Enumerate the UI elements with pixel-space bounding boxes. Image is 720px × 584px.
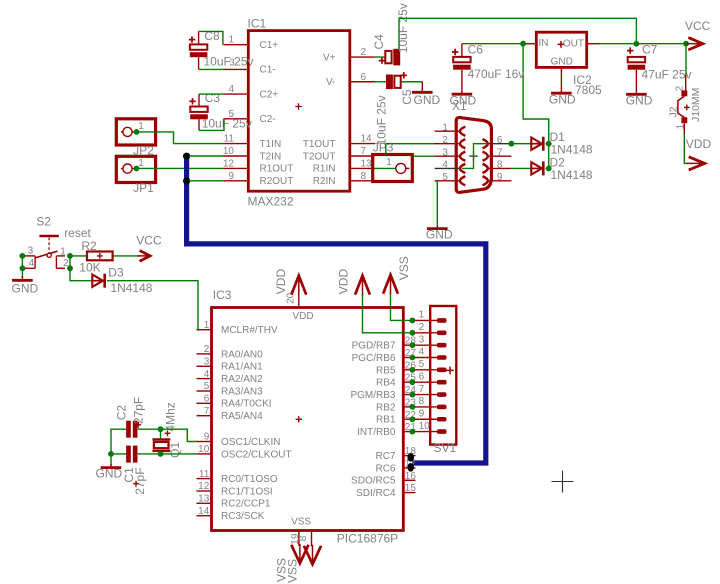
svg-text:2: 2 (442, 135, 448, 146)
svg-text:8: 8 (361, 171, 367, 182)
svg-text:C6: C6 (468, 42, 484, 56)
IC3 pin 28 PGD/RB7 (403, 344, 415, 346)
svg-text:JP3: JP3 (373, 141, 394, 155)
IC3 pin 8 VSS (311, 531, 313, 547)
capacitor C2 27pF (126, 421, 131, 438)
capacitor C6 470uF 16v (453, 57, 470, 62)
wire S2 to D3 (70, 268, 91, 280)
svg-text:GND: GND (626, 94, 653, 108)
svg-text:JP1: JP1 (133, 181, 154, 195)
IC3 pin 16 SDO/RC5 (403, 479, 415, 481)
IC1 pin 9 R2OUT (224, 180, 249, 182)
svg-text:Q1: Q1 (168, 442, 182, 458)
svg-text:7: 7 (419, 384, 425, 395)
svg-text:MCLR#/THV: MCLR#/THV (221, 325, 278, 336)
IC3 pin 12 RC1/T1OSI (197, 490, 212, 492)
svg-text:15: 15 (405, 483, 417, 494)
svg-text:C1-: C1- (260, 65, 276, 76)
svg-text:7: 7 (497, 147, 503, 158)
svg-text:S2: S2 (36, 214, 51, 228)
IC1 pin 5 C2- (224, 118, 249, 120)
wire C1 to OSC2 (138, 453, 197, 455)
jumper J2 10MM (681, 90, 687, 96)
wire C6 to 7805 IN (462, 43, 524, 45)
connector X1 DB9 outline (456, 118, 491, 193)
wire to ground xtal (110, 454, 112, 466)
IC3 pin 10 OSC2/CLKOUT (197, 453, 212, 455)
svg-text:IN: IN (539, 38, 549, 49)
svg-text:VSS: VSS (397, 256, 411, 280)
svg-text:OSC2/CLKOUT: OSC2/CLKOUT (221, 449, 292, 460)
svg-text:5: 5 (204, 381, 210, 392)
wire X1 pin8 to D2 (511, 167, 531, 169)
IC3 pin 6 RA4/T0CKI (197, 402, 212, 404)
capacitor C4 10uF 25v (385, 51, 391, 63)
diode D2 1N4148 (530, 167, 543, 169)
IC3 pin 19 VSS (298, 531, 300, 547)
svg-text:47uF 25v: 47uF 25v (642, 67, 692, 81)
svg-text:D3: D3 (108, 266, 124, 280)
IC1 pin 13 R1IN (350, 167, 375, 169)
svg-text:V-: V- (326, 77, 335, 88)
svg-text:RB5: RB5 (376, 365, 396, 376)
IC3 pin 18 RC7 (403, 455, 415, 457)
junction D2 cathode (546, 166, 552, 172)
wire D3 to MCLR (107, 281, 199, 330)
svg-text:RA2/AN2: RA2/AN2 (221, 374, 263, 385)
svg-text:6: 6 (204, 394, 210, 405)
svg-text:MAX232: MAX232 (248, 194, 294, 208)
wire T1OUT net to X1 pin2 (386, 144, 435, 155)
connector JP2 (116, 119, 155, 145)
junction OUT VCC (683, 41, 689, 47)
svg-text:9: 9 (419, 408, 425, 419)
SV1 pin 1 (437, 318, 447, 323)
wire J2 to VDD (683, 123, 685, 134)
svg-text:8: 8 (497, 160, 503, 171)
svg-text:VDD: VDD (337, 269, 351, 295)
capacitor C1 27pF (126, 446, 131, 463)
svg-text:3: 3 (442, 147, 448, 158)
capacitor C7 47uF 25v (628, 57, 645, 62)
svg-text:SDI/RC4: SDI/RC4 (356, 488, 396, 499)
svg-text:1: 1 (138, 158, 144, 169)
X1 pin 9 (488, 180, 512, 182)
junction S2 pin2 (67, 265, 73, 271)
svg-text:RA0/AN0: RA0/AN0 (221, 349, 263, 360)
ground IC2 (560, 91, 562, 92)
svg-text:R2OUT: R2OUT (260, 176, 294, 187)
svg-text:4: 4 (204, 369, 210, 380)
wire C3 top to IC1 pin4 (199, 93, 224, 95)
svg-text:1: 1 (138, 121, 144, 132)
svg-text:2: 2 (361, 47, 367, 58)
svg-text:1N4148: 1N4148 (551, 142, 593, 156)
svg-text:J10MM: J10MM (690, 88, 702, 122)
svg-text:T2OUT: T2OUT (303, 151, 336, 162)
wire X1 internal jumper pin4 to pin6 (462, 144, 486, 169)
svg-text:OUT: OUT (563, 38, 584, 49)
IC3 pin 15 SDI/RC4 (403, 492, 415, 494)
svg-text:6: 6 (497, 135, 503, 146)
junction S2 pin1 (67, 253, 73, 259)
IC3 pin 17 RC6 (403, 467, 415, 469)
svg-text:10: 10 (419, 421, 431, 432)
SV1 pin 7 (437, 392, 447, 397)
svg-text:PGM/RB3: PGM/RB3 (350, 390, 395, 401)
op-amp IC1 MAX232 body (248, 31, 349, 192)
svg-text:IC3: IC3 (213, 288, 232, 302)
IC3 pin 20 VDD (298, 295, 300, 308)
svg-text:10: 10 (223, 146, 235, 157)
svg-text:C1+: C1+ (260, 40, 279, 51)
IC2 GND pin (560, 67, 562, 91)
svg-text:11: 11 (224, 134, 235, 145)
svg-text:SDO/RC5: SDO/RC5 (351, 476, 396, 487)
svg-text:RA5/AN4: RA5/AN4 (221, 411, 263, 422)
svg-text:14: 14 (361, 134, 373, 145)
svg-text:C3: C3 (205, 91, 221, 105)
svg-text:GND: GND (414, 93, 441, 107)
svg-text:RA3/AN3: RA3/AN3 (221, 386, 263, 397)
bus entry RC6 (407, 463, 414, 472)
IC1 pin 6 V- (350, 81, 375, 83)
SV1 pin 6 (437, 380, 447, 385)
svg-text:R1OUT: R1OUT (260, 164, 294, 175)
wire S2 right pins (69, 256, 71, 268)
IC3 pin 9 OSC1/CLKIN (197, 441, 212, 443)
SV1 pin 9 (437, 417, 447, 422)
svg-text:1: 1 (442, 122, 448, 133)
capacitor C5 10uF 25v (386, 75, 393, 90)
wire to X1 pin3 (412, 155, 435, 157)
wire R2 to VCC (113, 255, 140, 257)
IC3 pin 11 RC0/T1OSO (197, 478, 212, 480)
wire S2 to ground (21, 268, 23, 277)
SV1 pin 10 (437, 429, 447, 434)
ground near C5 (421, 82, 423, 92)
wire JP2 to T1IN (137, 132, 224, 144)
IC1 pin 2 V+ (350, 56, 375, 58)
SV1 pin 4 (437, 355, 447, 360)
svg-text:1N4148: 1N4148 (551, 168, 593, 182)
svg-text:C4: C4 (372, 34, 386, 50)
svg-text:13: 13 (361, 158, 373, 169)
wire VCC to J2 (685, 44, 687, 75)
svg-text:6: 6 (419, 371, 425, 382)
svg-text:27pF: 27pF (133, 467, 147, 494)
IC1 pin 4 C2+ (224, 93, 249, 95)
wire C8 bottom to IC1 pin3 (199, 68, 224, 70)
svg-text:OSC1/CLKIN: OSC1/CLKIN (221, 437, 280, 448)
IC3 pin 24 PGM/RB3 (403, 394, 415, 396)
svg-text:J2: J2 (667, 106, 679, 117)
IC3 pin 25 RB4 (403, 381, 415, 383)
svg-text:10uF 25v: 10uF 25v (202, 116, 252, 130)
junction D1 cathode (546, 141, 552, 147)
svg-text:GND: GND (426, 228, 453, 242)
IC1 pin 14 T1OUT (350, 143, 375, 145)
IC3 pin 27 PGC/RB6 (403, 357, 415, 359)
IC3 pin 3 RA1/AN1 (197, 365, 212, 367)
svg-text:12: 12 (223, 158, 235, 169)
IC1 pin 1 C1+ (224, 44, 249, 46)
svg-text:GND: GND (549, 92, 576, 106)
svg-text:C7: C7 (642, 42, 658, 56)
svg-text:10: 10 (198, 444, 210, 455)
svg-text:RB2: RB2 (376, 402, 396, 413)
svg-text:1: 1 (419, 310, 425, 321)
svg-text:4: 4 (228, 84, 234, 95)
capacitor C3 10uF 25v (190, 107, 207, 112)
svg-text:VSS: VSS (285, 559, 299, 583)
connector SV1 body (430, 306, 456, 445)
regulator IC2 7805 body (536, 32, 586, 67)
microcontroller IC3 PIC16876P body (212, 308, 404, 531)
svg-text:R1IN: R1IN (313, 164, 336, 175)
svg-text:11: 11 (199, 469, 210, 480)
IC3 pin 13 RC2/CCP1 (197, 502, 212, 504)
junction JP2 pin (134, 129, 140, 135)
svg-text:T1OUT: T1OUT (303, 139, 336, 150)
IC1 pin 12 R1OUT (224, 167, 249, 169)
wire bus to T2IN (189, 155, 224, 157)
junction S2 pin3 (20, 253, 26, 259)
IC2 OUT pin (587, 43, 600, 45)
IC3 pin 5 RA3/AN3 (197, 390, 212, 392)
svg-text:RC2/CCP1: RC2/CCP1 (221, 499, 271, 510)
svg-text:14: 14 (198, 506, 210, 517)
IC3 pin 2 RA0/AN0 (197, 353, 212, 355)
crystal Q1 4Mhz (152, 438, 170, 440)
svg-text:GND: GND (96, 467, 123, 481)
svg-text:PGD/RB7: PGD/RB7 (352, 341, 396, 352)
X1 pin 8 (488, 167, 512, 169)
wire bus (187, 155, 486, 463)
svg-text:C2+: C2+ (260, 89, 279, 100)
IC1 pin 10 T2IN (224, 155, 249, 157)
wire C4 to 7805 output (399, 18, 636, 49)
connector JP1 (116, 156, 155, 182)
wire V+ to C4 (375, 56, 386, 58)
wire C5 to ground (401, 81, 423, 83)
connector JP3 (373, 155, 413, 182)
svg-text:GND: GND (12, 281, 39, 295)
svg-text:4: 4 (442, 160, 448, 171)
svg-text:5: 5 (442, 172, 448, 183)
svg-text:RA1/AN1: RA1/AN1 (221, 362, 263, 373)
SV1 pin 5 (437, 368, 447, 373)
svg-text:reset: reset (64, 226, 91, 240)
svg-text:13: 13 (198, 494, 210, 505)
svg-text:2: 2 (204, 344, 210, 355)
bus entry R2OUT (183, 177, 190, 184)
IC2 IN pin (524, 43, 537, 45)
svg-text:RC3/SCK: RC3/SCK (221, 511, 265, 522)
IC1 pin 7 T2OUT (350, 155, 375, 157)
resistor R2 10K (87, 252, 113, 261)
diode D3 1N4148 (91, 280, 104, 282)
svg-text:7: 7 (361, 146, 367, 157)
IC3 pin 21 INT/RB0 (403, 431, 415, 433)
svg-text:3: 3 (204, 357, 210, 368)
svg-text:SV1: SV1 (434, 441, 457, 455)
svg-text:2: 2 (419, 322, 425, 333)
ground crystal caps (110, 464, 112, 467)
wire crystal bottom (160, 451, 162, 454)
bus entry RC7 (407, 453, 414, 462)
junction JP1 pin (134, 166, 140, 172)
svg-text:4Mhz: 4Mhz (163, 402, 177, 431)
SV1 pin 2 (437, 331, 447, 336)
wire X1 pin5 to ground (436, 181, 438, 226)
ground near X1 pin5 (436, 226, 438, 228)
svg-text:GND: GND (551, 56, 573, 67)
svg-text:4: 4 (29, 258, 35, 269)
svg-text:RB4: RB4 (376, 378, 396, 389)
IC3 pin 1 MCLR#/THV (197, 329, 212, 331)
svg-text:INT/RB0: INT/RB0 (357, 427, 396, 438)
svg-text:6: 6 (361, 72, 367, 83)
svg-text:7805: 7805 (575, 83, 602, 97)
X1 pin 5 (435, 180, 461, 182)
svg-text:5: 5 (419, 359, 425, 370)
IC3 pin 26 RB5 (403, 369, 415, 371)
svg-text:470uF 16v: 470uF 16v (468, 67, 525, 81)
ground C6 (461, 92, 463, 93)
svg-text:3: 3 (28, 245, 34, 256)
svg-text:10uF 25v: 10uF 25v (375, 95, 389, 145)
svg-text:10uF 25v: 10uF 25v (204, 54, 254, 68)
svg-text:RC6: RC6 (375, 463, 395, 474)
svg-text:PIC16876P: PIC16876P (337, 532, 398, 546)
wire V- to C5 (375, 81, 387, 83)
IC3 pin 4 RA2/AN2 (197, 378, 212, 380)
junction caps ground (108, 451, 114, 457)
capacitor C8 10uF 25v (190, 44, 207, 49)
svg-text:VCC: VCC (136, 234, 162, 248)
X1 pin 7 (488, 155, 512, 157)
bus entry T2IN (183, 153, 190, 160)
svg-text:C5: C5 (400, 89, 414, 105)
svg-text:T1IN: T1IN (260, 139, 282, 150)
X1 pin 1 (435, 130, 461, 132)
wire crystal top (160, 429, 162, 439)
IC3 pin 14 RC3/SCK (197, 515, 212, 517)
IC3 pin 22 RB1 (403, 418, 415, 420)
wire S2 left pins (21, 256, 23, 268)
wire S2 to R2 (70, 255, 87, 257)
X1 pin 3 (435, 155, 461, 157)
svg-text:9: 9 (497, 172, 503, 183)
wire diode cathodes to 7805 input net (523, 44, 549, 169)
svg-text:16: 16 (405, 471, 417, 482)
wire bus to R2OUT (189, 180, 224, 182)
IC1 pin 11 T1IN (224, 143, 249, 145)
svg-text:VCC: VCC (685, 19, 711, 33)
IC3 pin 23 RB2 (403, 406, 415, 408)
ground C7 (635, 92, 637, 93)
wire 7805 OUT to VCC (600, 43, 686, 45)
wire C3 bottom to IC1 pin5 (199, 119, 224, 131)
svg-text:9: 9 (228, 171, 234, 182)
svg-text:RB1: RB1 (376, 415, 396, 426)
svg-text:VDD: VDD (293, 311, 314, 322)
svg-text:1: 1 (386, 157, 392, 168)
wire caps left side (111, 429, 126, 454)
svg-text:C2: C2 (114, 405, 128, 421)
IC3 pin 7 RA5/AN4 (197, 415, 212, 417)
svg-text:3: 3 (419, 334, 425, 345)
svg-text:VDD: VDD (274, 269, 288, 295)
wire VDD to SV1 pin2 (363, 295, 413, 333)
wire C2 to OSC1 (138, 429, 197, 441)
svg-text:RC1/T1OSI: RC1/T1OSI (221, 486, 273, 497)
SV1 pin 3 (437, 343, 447, 348)
svg-text:VSS: VSS (291, 516, 311, 527)
svg-text:C2-: C2- (260, 114, 276, 125)
C6 ground stem (461, 70, 463, 93)
svg-text:9: 9 (204, 432, 210, 443)
ground S2 (21, 276, 23, 279)
svg-text:8: 8 (298, 535, 309, 541)
wire X1 pin6 to D1 (511, 143, 531, 145)
sheet origin cross (552, 471, 574, 493)
C7 ground stem (635, 70, 637, 93)
svg-text:1: 1 (228, 35, 234, 46)
svg-text:RA4/T0CKI: RA4/T0CKI (221, 399, 272, 410)
svg-text:R2IN: R2IN (313, 176, 336, 187)
junction 7805 input (520, 41, 526, 47)
wire JP1 to R1OUT (137, 167, 224, 169)
svg-text:1N4148: 1N4148 (110, 281, 152, 295)
svg-text:PGC/RB6: PGC/RB6 (352, 353, 396, 364)
wire C8 top to IC1 pin1 (199, 31, 223, 44)
svg-text:R2: R2 (81, 239, 97, 253)
junction OUT C7 (634, 41, 640, 47)
diode D1 1N4148 (530, 143, 543, 145)
svg-text:8: 8 (419, 396, 425, 407)
svg-text:RC7: RC7 (375, 451, 395, 462)
IC1 pin 8 R2IN (350, 180, 375, 182)
junction X1 pin6 (509, 141, 515, 147)
svg-text:7: 7 (204, 406, 210, 417)
svg-text:1: 1 (204, 320, 210, 331)
X1 pin 2 (435, 143, 461, 145)
IC1 pin 3 C1- (224, 68, 249, 70)
wire R1IN to JP3 pin (375, 167, 396, 169)
junction S2 pin4 (20, 265, 26, 271)
svg-text:RC0/T1OSO: RC0/T1OSO (221, 474, 278, 485)
svg-text:10K: 10K (79, 261, 100, 275)
svg-text:T2IN: T2IN (260, 151, 282, 162)
wire VSS to SV1 pin1 (391, 294, 413, 321)
SV1 pin 8 (437, 405, 447, 410)
svg-text:GND: GND (450, 93, 477, 107)
svg-text:1: 1 (60, 246, 66, 257)
svg-text:V+: V+ (323, 52, 336, 63)
X1 pin 6 (488, 143, 512, 145)
svg-text:4: 4 (419, 347, 425, 358)
svg-text:IC1: IC1 (248, 17, 267, 31)
junction crystal bottom (158, 451, 164, 457)
svg-text:VDD: VDD (686, 137, 712, 151)
svg-text:27pF: 27pF (131, 397, 145, 424)
svg-text:2: 2 (674, 85, 685, 91)
svg-text:12: 12 (198, 481, 210, 492)
X1 pin 4 (435, 167, 461, 169)
junction crystal top (158, 426, 164, 432)
